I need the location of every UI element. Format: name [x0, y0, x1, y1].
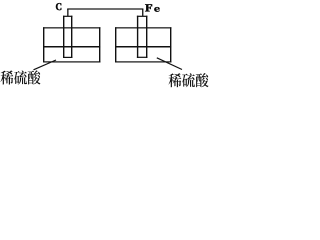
electrode C (carbon rod, left cell): [63, 16, 72, 58]
dilute sulfuric acid level in B2: [115, 46, 171, 48]
wire connecting electrode C to electrode Fe: [67, 8, 143, 16]
beaker B2 (right cell body): [115, 27, 171, 62]
dilute sulfuric acid level in B1: [43, 46, 100, 48]
label Fe (iron electrode): e: [154, 7, 159, 11]
leader line to right 稀硫酸 label: [157, 58, 182, 70]
electrode Fe (iron rod, right cell): [137, 16, 148, 58]
label Fe (iron electrode): F: [145, 4, 152, 11]
leader line to left 稀硫酸 label: [34, 60, 57, 70]
text 稀硫酸 (dilute sulfuric acid, right): [168, 73, 208, 87]
text 稀硫酸 (dilute sulfuric acid, left): [0, 70, 40, 84]
beaker B1 (left cell body): [43, 27, 100, 62]
label C (carbon electrode): [56, 3, 61, 10]
